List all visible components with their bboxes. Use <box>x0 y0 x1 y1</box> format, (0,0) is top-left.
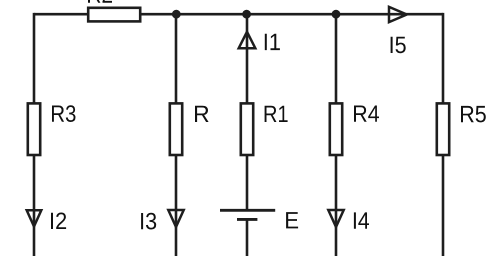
label R1 <box>265 106 288 122</box>
wire branch 5 right vertical <box>442 13 445 256</box>
current arrow I1 up <box>239 32 256 48</box>
wire branch 3 vertical upper <box>246 14 249 210</box>
wire branch 2 vertical <box>175 14 178 256</box>
label R5 <box>461 106 486 123</box>
current arrow I5 right <box>389 7 407 22</box>
current arrow I2 down <box>27 210 42 226</box>
current arrow I3 down <box>168 210 183 227</box>
wire left vertical branch 1 <box>33 13 36 256</box>
node junction dot B <box>242 10 251 19</box>
node junction dot C <box>332 10 341 19</box>
resistor R5 <box>437 103 449 155</box>
label I1 <box>265 34 280 50</box>
current arrow I4 down <box>328 210 343 227</box>
label I4 <box>354 212 369 228</box>
wire top horizontal <box>34 13 443 16</box>
wire branch 3 vertical lower <box>246 220 249 256</box>
resistor R2 <box>88 8 140 22</box>
label I5 <box>391 37 406 54</box>
label R <box>195 106 209 122</box>
battery E short plate <box>237 218 257 221</box>
label R3 <box>52 105 76 122</box>
resistor R <box>170 103 182 155</box>
label R4 <box>354 106 379 122</box>
resistor R1 <box>241 103 253 155</box>
resistor R3 <box>28 103 40 155</box>
node junction dot A <box>172 10 181 19</box>
battery E long plate <box>220 209 275 212</box>
label I2 <box>51 213 66 230</box>
resistor R4 <box>330 103 342 155</box>
wire branch 4 vertical <box>335 14 338 256</box>
label R2 <box>88 0 112 3</box>
label I3 <box>141 213 156 230</box>
label E <box>286 212 298 228</box>
